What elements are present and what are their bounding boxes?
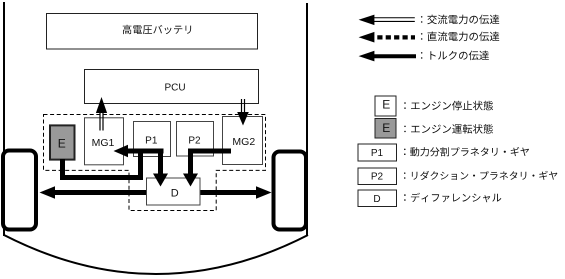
svg-text:D: D xyxy=(171,188,179,200)
svg-text:P1: P1 xyxy=(145,136,158,147)
svg-text:P1: P1 xyxy=(371,148,384,159)
MG1 box xyxy=(85,118,124,165)
AC arrow MG1 to PCU double line xyxy=(99,113,101,131)
legend D box xyxy=(358,190,397,207)
legend AC double line xyxy=(374,17,415,19)
legend text リダクション・プラネタリ・ギヤ xyxy=(404,171,557,180)
torque arrowhead P2 to D xyxy=(183,174,198,187)
torque arrowhead into MG1 xyxy=(114,145,129,158)
P1 box xyxy=(134,122,171,157)
right wheel xyxy=(274,152,307,230)
car body bottom arc xyxy=(4,235,308,274)
svg-text:E: E xyxy=(382,98,390,112)
legend text 動力分割プラネタリ・ギヤ xyxy=(404,147,529,156)
axle right arrowhead xyxy=(256,186,272,199)
svg-text:MG1: MG1 xyxy=(92,137,115,149)
legend E running box xyxy=(375,119,396,139)
svg-text:D: D xyxy=(373,194,380,205)
P2 box xyxy=(177,122,214,157)
svg-text:P2: P2 xyxy=(371,172,384,183)
torque wire E descender xyxy=(60,159,65,180)
AC arrow PCU to MG2 double line xyxy=(241,99,243,112)
left wheel xyxy=(3,151,36,230)
AC arrow MG1 to PCU head xyxy=(96,97,107,113)
legend text エンジン運転状態 xyxy=(404,124,493,134)
PCU box xyxy=(85,70,259,104)
legend torque line xyxy=(374,54,416,58)
legend text ディファレンシャル xyxy=(404,193,501,203)
torque wire MG2 horizontal xyxy=(188,149,231,154)
car body right line xyxy=(306,3,308,236)
D differential box xyxy=(147,178,201,205)
legend AC arrowhead xyxy=(359,15,375,26)
legend torque arrowhead xyxy=(359,51,375,62)
hybrid system dashed outline (with differential notch) xyxy=(44,115,266,211)
svg-text:E: E xyxy=(382,121,390,135)
torque wire P1 to D drop xyxy=(158,149,163,176)
engine E box xyxy=(50,125,75,159)
legend E stopped box xyxy=(375,96,396,116)
legend DC dashed line xyxy=(377,35,415,39)
legend P1 box xyxy=(358,144,397,161)
battery label 高電圧バッテリ xyxy=(123,25,191,34)
torque wire E riser xyxy=(138,149,143,181)
torque arrowhead P1 to D xyxy=(153,174,168,187)
legend text 直流電力の伝達 xyxy=(421,32,499,42)
torque wire E horizontal xyxy=(60,175,143,180)
torque wire P2 to D drop xyxy=(188,149,193,176)
legend text エンジン停止状態 xyxy=(404,101,493,111)
legend text トルクの伝達 xyxy=(421,51,489,61)
legend DC arrowhead xyxy=(359,32,375,43)
svg-text:PCU: PCU xyxy=(164,83,185,94)
AC arrow PCU to MG2 head xyxy=(237,112,249,126)
axle left arrowhead xyxy=(40,186,56,199)
svg-text:P2: P2 xyxy=(188,136,201,147)
car body left line xyxy=(3,2,5,236)
torque wire P1 horizontal xyxy=(127,149,164,154)
MG2 box xyxy=(223,117,263,165)
battery box xyxy=(47,14,258,50)
legend P2 box xyxy=(358,168,397,185)
legend text 交流電力の伝達 xyxy=(421,15,499,25)
svg-text:MG2: MG2 xyxy=(232,136,255,148)
svg-text:E: E xyxy=(58,136,66,150)
axle torque line xyxy=(50,190,258,195)
